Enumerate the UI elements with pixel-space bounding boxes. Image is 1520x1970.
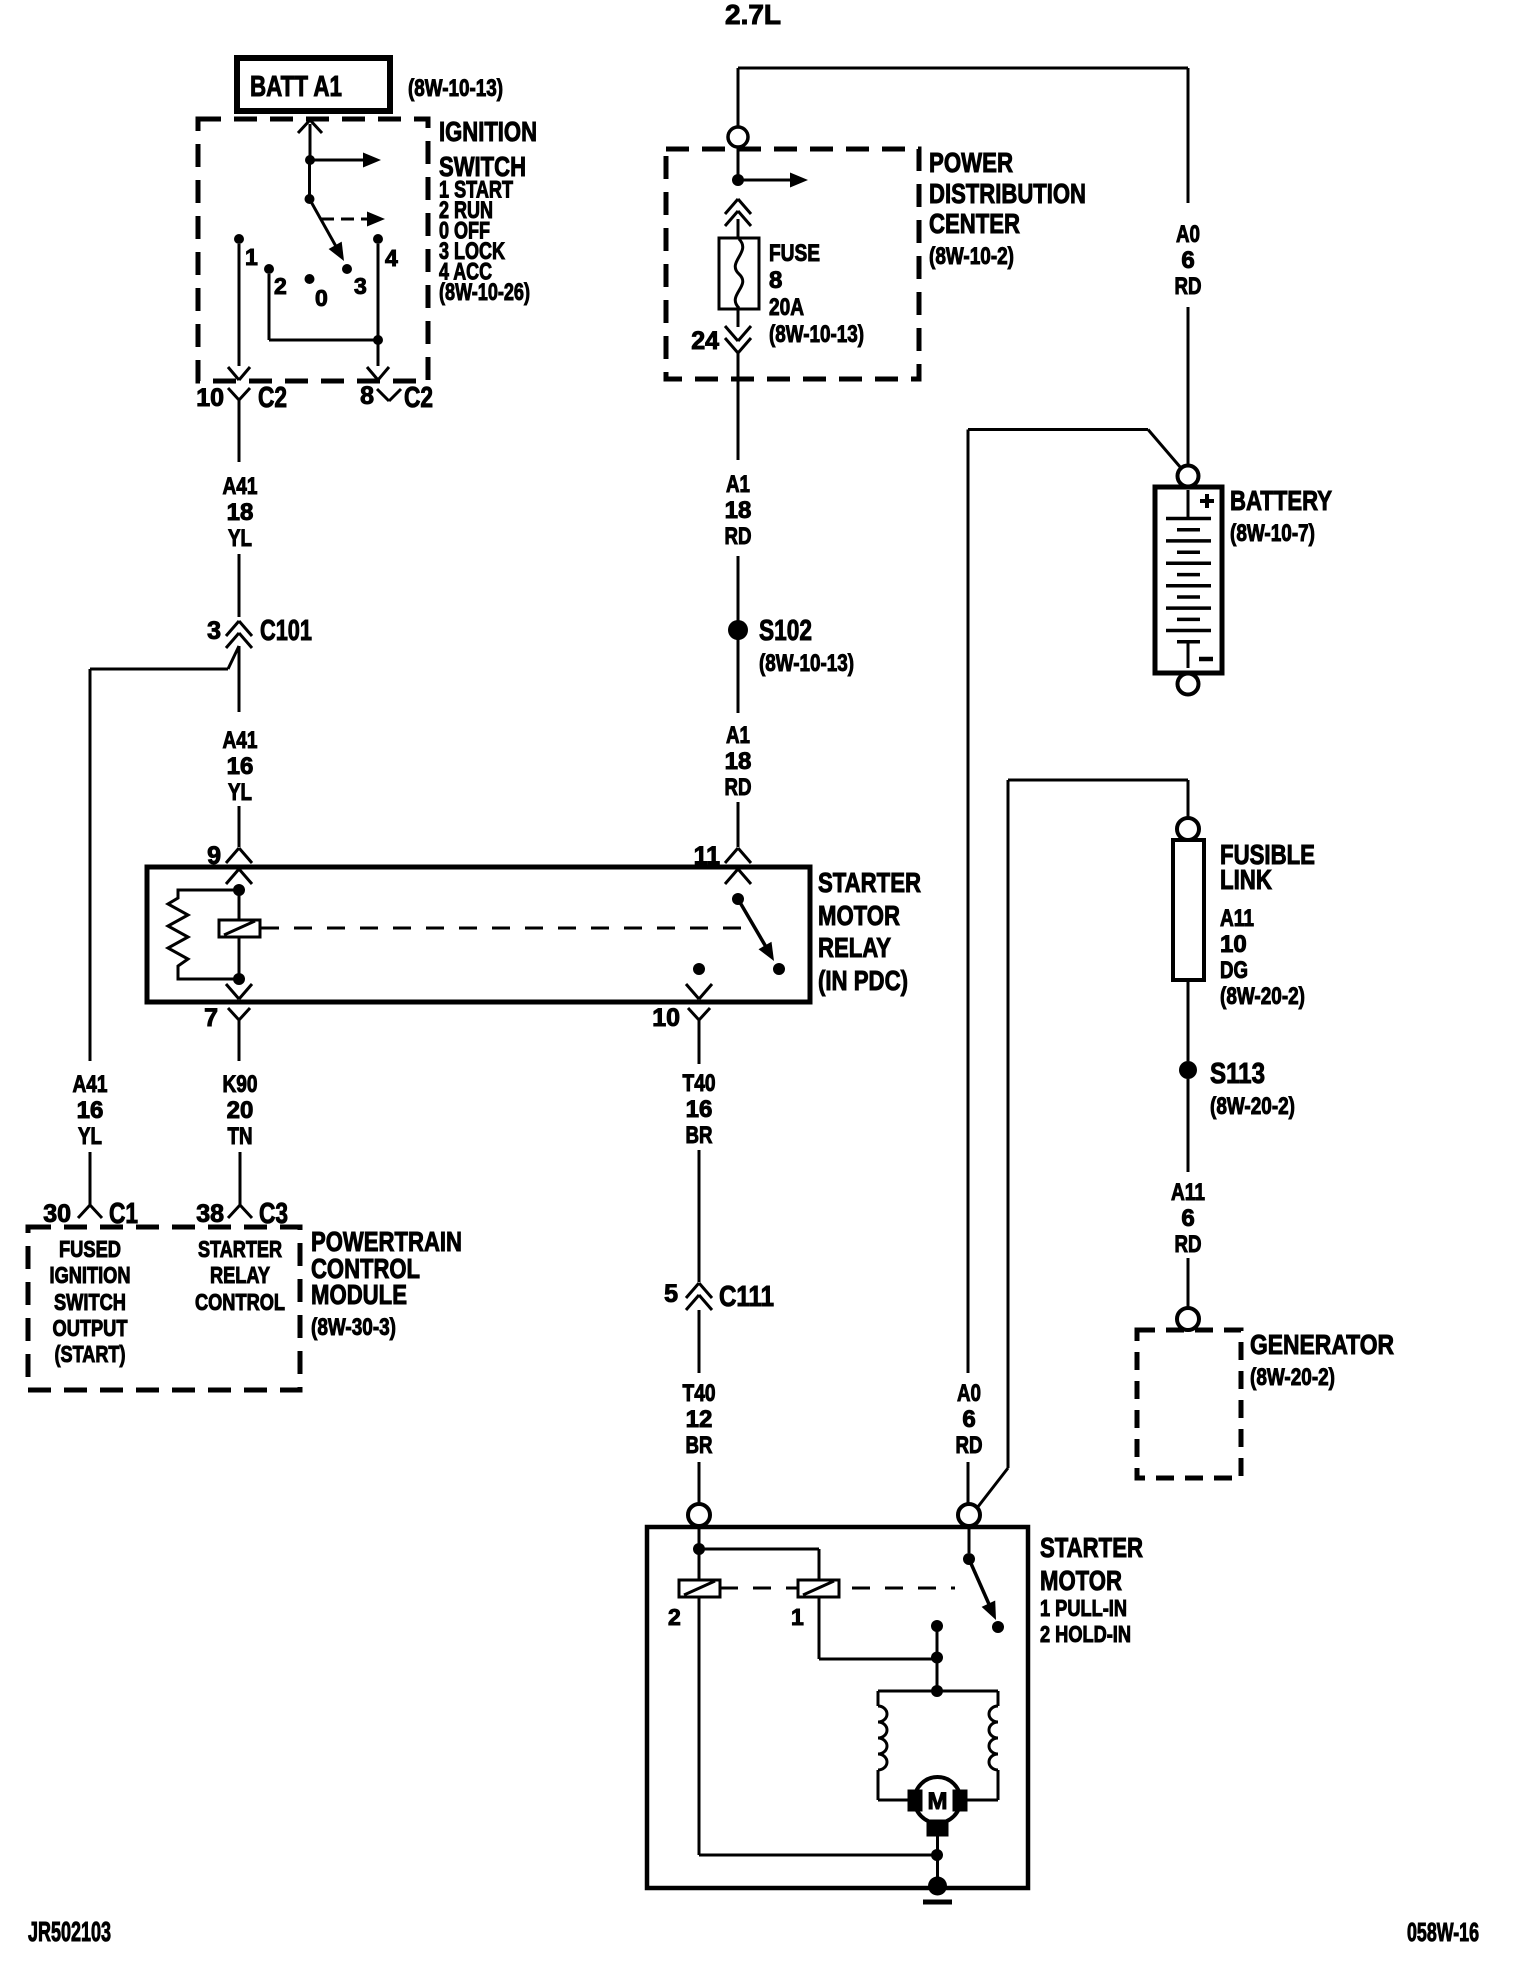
svg-text:058W-16: 058W-16: [1407, 1917, 1479, 1947]
svg-text:24: 24: [691, 327, 719, 355]
svg-text:1: 1: [791, 1604, 804, 1630]
svg-text:(IN PDC): (IN PDC): [818, 965, 908, 996]
svg-text:7: 7: [204, 1004, 218, 1032]
svg-text:A11: A11: [1220, 905, 1254, 932]
svg-text:(8W-10-2): (8W-10-2): [929, 243, 1014, 270]
svg-text:A0: A0: [1176, 221, 1200, 248]
svg-text:YL: YL: [228, 779, 252, 806]
svg-text:16: 16: [686, 1096, 713, 1123]
svg-text:(START): (START): [55, 1341, 126, 1367]
svg-text:C111: C111: [719, 1281, 774, 1313]
svg-text:(8W-20-2): (8W-20-2): [1210, 1093, 1295, 1120]
svg-text:T40: T40: [683, 1070, 716, 1097]
svg-text:YL: YL: [78, 1123, 102, 1150]
svg-text:2: 2: [274, 273, 287, 299]
svg-text:(8W-10-13): (8W-10-13): [769, 321, 864, 348]
svg-text:A1: A1: [726, 722, 750, 749]
svg-text:OUTPUT: OUTPUT: [53, 1315, 128, 1341]
svg-text:RD: RD: [1175, 273, 1202, 300]
svg-text:FUSE: FUSE: [769, 240, 820, 267]
svg-text:(8W-10-13): (8W-10-13): [759, 650, 854, 677]
svg-text:8: 8: [360, 382, 374, 410]
svg-text:20: 20: [227, 1097, 254, 1124]
svg-text:M: M: [928, 1788, 948, 1815]
svg-text:RD: RD: [725, 774, 752, 801]
svg-text:POWER: POWER: [929, 147, 1013, 178]
svg-text:IGNITION: IGNITION: [50, 1262, 131, 1288]
svg-text:JR502103: JR502103: [28, 1916, 111, 1947]
svg-text:0: 0: [315, 285, 328, 311]
svg-text:(8W-10-7): (8W-10-7): [1230, 520, 1315, 547]
svg-text:10: 10: [1220, 931, 1247, 958]
svg-text:RD: RD: [956, 1432, 983, 1459]
svg-text:A41: A41: [223, 473, 258, 500]
svg-text:A1: A1: [726, 471, 750, 498]
svg-text:6: 6: [1181, 247, 1194, 274]
svg-text:16: 16: [77, 1097, 104, 1124]
svg-text:5: 5: [664, 1280, 678, 1308]
svg-text:A41: A41: [223, 727, 258, 754]
svg-text:20A: 20A: [769, 294, 804, 321]
svg-text:4: 4: [385, 245, 398, 271]
svg-text:TN: TN: [228, 1123, 253, 1150]
svg-text:12: 12: [686, 1406, 713, 1433]
svg-text:LINK: LINK: [1220, 864, 1272, 895]
svg-text:STARTER: STARTER: [818, 867, 921, 898]
svg-text:K90: K90: [223, 1071, 258, 1098]
svg-text:GENERATOR: GENERATOR: [1250, 1329, 1394, 1360]
svg-text:10: 10: [652, 1004, 680, 1032]
svg-text:(8W-30-3): (8W-30-3): [311, 1314, 396, 1341]
svg-text:MODULE: MODULE: [311, 1279, 407, 1310]
svg-text:RELAY: RELAY: [210, 1262, 270, 1288]
svg-text:RD: RD: [725, 523, 752, 550]
svg-text:8: 8: [769, 267, 782, 294]
svg-text:DG: DG: [1220, 957, 1248, 984]
svg-text:RELAY: RELAY: [818, 932, 891, 963]
svg-text:3: 3: [354, 273, 367, 299]
svg-text:SWITCH: SWITCH: [54, 1289, 126, 1315]
svg-text:MOTOR: MOTOR: [818, 900, 900, 931]
svg-text:BATT A1: BATT A1: [250, 71, 342, 103]
svg-text:6: 6: [962, 1406, 975, 1433]
svg-text:C101: C101: [260, 615, 312, 647]
svg-text:30: 30: [43, 1200, 71, 1228]
svg-text:C2: C2: [404, 382, 433, 414]
svg-text:STARTER: STARTER: [1040, 1532, 1143, 1563]
svg-text:A0: A0: [957, 1380, 981, 1407]
svg-text:BR: BR: [686, 1122, 713, 1149]
svg-text:A41: A41: [73, 1071, 108, 1098]
svg-text:(8W-10-26): (8W-10-26): [439, 279, 530, 306]
svg-text:10: 10: [196, 384, 224, 412]
svg-text:18: 18: [725, 748, 752, 775]
svg-text:18: 18: [725, 497, 752, 524]
svg-text:CENTER: CENTER: [929, 208, 1020, 239]
svg-text:FUSED: FUSED: [59, 1236, 121, 1262]
svg-text:6: 6: [1181, 1205, 1194, 1232]
svg-text:C2: C2: [258, 382, 287, 414]
svg-text:A11: A11: [1171, 1179, 1205, 1206]
svg-text:RD: RD: [1175, 1231, 1202, 1258]
svg-text:BATTERY: BATTERY: [1230, 485, 1332, 516]
svg-text:(8W-20-2): (8W-20-2): [1220, 983, 1305, 1010]
svg-text:YL: YL: [228, 525, 252, 552]
svg-text:IGNITION: IGNITION: [439, 116, 537, 147]
svg-text:T40: T40: [683, 1380, 716, 1407]
svg-text:S113: S113: [1210, 1058, 1265, 1090]
svg-text:3: 3: [207, 617, 221, 645]
svg-text:DISTRIBUTION: DISTRIBUTION: [929, 178, 1086, 209]
svg-text:2.7L: 2.7L: [725, 0, 781, 30]
svg-text:(8W-10-13): (8W-10-13): [408, 75, 503, 102]
svg-text:(8W-20-2): (8W-20-2): [1250, 1364, 1335, 1391]
svg-text:11: 11: [694, 842, 721, 870]
svg-text:BR: BR: [686, 1432, 713, 1459]
svg-text:1 PULL-IN: 1 PULL-IN: [1040, 1595, 1127, 1621]
svg-text:S102: S102: [759, 615, 812, 647]
svg-text:2 HOLD-IN: 2 HOLD-IN: [1040, 1621, 1131, 1647]
svg-text:STARTER: STARTER: [198, 1236, 282, 1262]
svg-text:MOTOR: MOTOR: [1040, 1565, 1122, 1596]
svg-text:18: 18: [227, 499, 254, 526]
svg-text:CONTROL: CONTROL: [195, 1289, 285, 1315]
svg-text:2: 2: [668, 1604, 681, 1630]
svg-text:16: 16: [227, 753, 254, 780]
svg-text:38: 38: [196, 1200, 224, 1228]
svg-text:1: 1: [245, 244, 258, 270]
